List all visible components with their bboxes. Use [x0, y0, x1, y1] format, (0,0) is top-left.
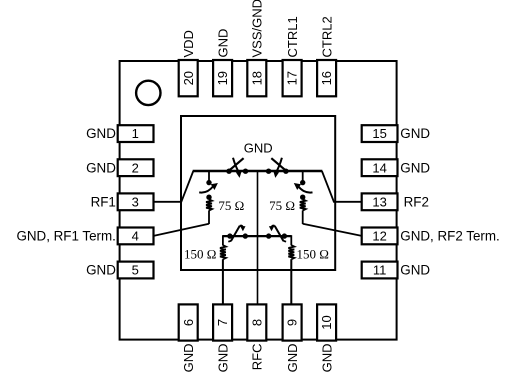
svg-text:20: 20: [181, 71, 196, 85]
svg-text:GND: GND: [86, 160, 116, 175]
svg-text:75 Ω: 75 Ω: [269, 198, 295, 213]
svg-text:16: 16: [319, 71, 334, 85]
svg-text:3: 3: [132, 194, 139, 209]
svg-text:14: 14: [372, 160, 386, 175]
svg-text:5: 5: [132, 263, 139, 278]
svg-text:RFC: RFC: [250, 344, 265, 371]
svg-text:GND: GND: [400, 126, 430, 141]
svg-text:8: 8: [249, 319, 264, 326]
svg-text:VDD: VDD: [181, 30, 196, 57]
svg-text:GND: GND: [285, 344, 300, 373]
svg-text:150 Ω: 150 Ω: [184, 246, 216, 261]
svg-text:6: 6: [181, 319, 196, 326]
svg-text:11: 11: [373, 263, 387, 278]
svg-text:13: 13: [372, 194, 386, 209]
svg-text:GND: GND: [181, 344, 196, 373]
svg-text:VSS/GND: VSS/GND: [250, 0, 265, 58]
svg-text:4: 4: [132, 229, 139, 244]
svg-text:7: 7: [215, 319, 230, 326]
svg-text:12: 12: [372, 229, 386, 244]
svg-text:GND: GND: [86, 126, 116, 141]
svg-text:GND: GND: [400, 263, 430, 278]
svg-text:2: 2: [132, 160, 139, 175]
svg-text:GND, RF2 Term.: GND, RF2 Term.: [400, 229, 499, 244]
svg-text:GND: GND: [400, 160, 430, 175]
svg-text:RF2: RF2: [404, 194, 429, 209]
svg-text:1: 1: [132, 126, 139, 141]
svg-text:15: 15: [372, 126, 386, 141]
svg-text:GND, RF1 Term.: GND, RF1 Term.: [16, 229, 115, 244]
svg-text:CTRL1: CTRL1: [285, 16, 300, 57]
svg-text:RF1: RF1: [91, 194, 116, 209]
svg-text:9: 9: [285, 319, 300, 326]
svg-text:GND: GND: [216, 29, 231, 58]
svg-text:10: 10: [319, 315, 334, 329]
svg-text:150 Ω: 150 Ω: [297, 246, 329, 261]
svg-text:CTRL2: CTRL2: [320, 16, 335, 57]
svg-text:GND: GND: [86, 263, 116, 278]
svg-text:17: 17: [285, 71, 300, 85]
svg-text:GND: GND: [216, 344, 231, 373]
svg-text:19: 19: [215, 71, 230, 85]
svg-text:GND: GND: [320, 344, 335, 373]
svg-text:75 Ω: 75 Ω: [218, 198, 244, 213]
svg-text:GND: GND: [244, 140, 273, 155]
svg-text:18: 18: [249, 71, 264, 85]
